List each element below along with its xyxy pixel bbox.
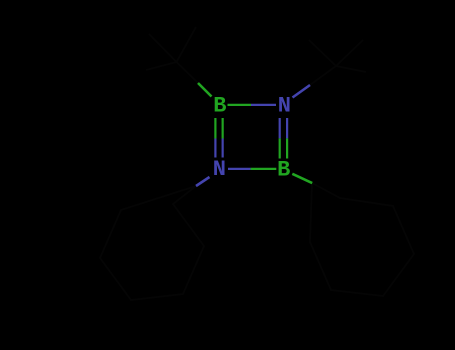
- svg-text:B: B: [277, 158, 290, 183]
- svg-text:N: N: [213, 157, 226, 182]
- svg-text:N: N: [278, 94, 291, 119]
- svg-text:B: B: [213, 94, 226, 119]
